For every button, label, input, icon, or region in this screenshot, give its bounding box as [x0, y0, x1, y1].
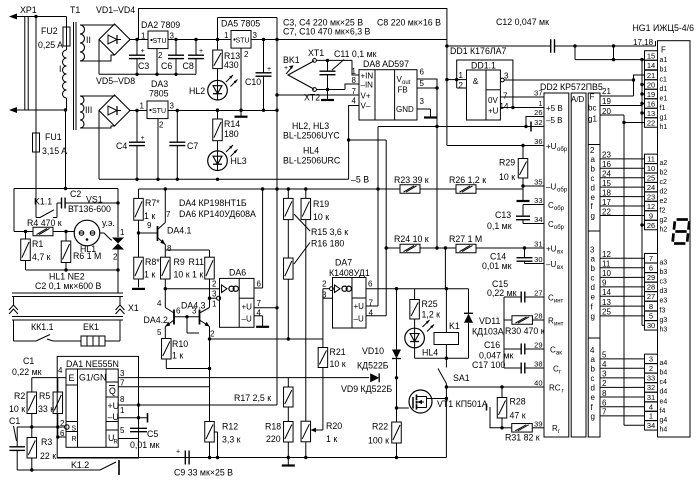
wire h1 feed	[624, 122, 645, 124]
svg-text:II: II	[86, 35, 91, 45]
capacitor C5	[138, 418, 140, 429]
svg-text:R21: R21	[330, 347, 346, 357]
svg-text:17: 17	[602, 198, 611, 207]
svg-text:32: 32	[534, 118, 542, 127]
svg-text:3: 3	[649, 355, 653, 364]
node x277 mid rail	[275, 187, 278, 190]
svg-text:ЕК1: ЕК1	[83, 322, 99, 332]
node R15 top	[287, 187, 290, 190]
svg-text:4,7 к: 4,7 к	[32, 252, 51, 262]
wire R28 stub	[490, 407, 502, 428]
wire VD10 to gate	[396, 373, 398, 408]
resistor R31	[502, 427, 512, 429]
wire from plug bottom to heater box	[65, 110, 67, 189]
svg-text:BK1: BK1	[283, 55, 300, 65]
svg-text:C10: C10	[245, 77, 261, 87]
svg-text:16: 16	[647, 99, 655, 108]
svg-text:C14: C14	[490, 252, 506, 262]
node VT1 drain	[445, 397, 448, 400]
svg-text:h2: h2	[660, 226, 668, 233]
wire g1 feed	[642, 112, 645, 114]
svg-text:1: 1	[141, 32, 146, 41]
svg-text:DA4.1: DA4.1	[167, 226, 192, 236]
switch SA1	[445, 359, 447, 367]
svg-text:–IN: –IN	[361, 81, 374, 90]
node R5 bottom S	[56, 425, 59, 428]
node XP1 top junction	[34, 15, 37, 18]
svg-text:15: 15	[602, 179, 611, 188]
svg-text:25: 25	[602, 308, 611, 317]
svg-text:14: 14	[647, 61, 655, 70]
wire RC oscillator feed	[446, 386, 544, 388]
svg-text:C4: C4	[116, 141, 127, 151]
node x378 rail	[376, 187, 379, 190]
svg-text:c2: c2	[660, 179, 668, 186]
node R6 top	[64, 230, 67, 233]
resistor R16	[284, 258, 294, 279]
node VD9 VT1 gate	[395, 376, 398, 379]
svg-text:30: 30	[647, 321, 655, 330]
svg-text:d: d	[591, 283, 595, 292]
svg-text:7: 7	[257, 299, 262, 308]
resistor R21	[318, 348, 328, 368]
resistor R12	[205, 422, 215, 443]
node R3 bottom	[30, 468, 33, 471]
svg-text:R23 39 к: R23 39 к	[394, 175, 429, 185]
node R9 bottom DA4.2 collector	[164, 287, 167, 290]
svg-text:31: 31	[647, 393, 655, 402]
svg-text:0,22 мк: 0,22 мк	[12, 367, 42, 377]
wire DA8 pin6 out	[417, 79, 437, 88]
svg-text:2: 2	[322, 280, 327, 289]
svg-text:35: 35	[534, 178, 542, 187]
node R6 bottom	[64, 268, 67, 271]
wire DD1 input feed	[447, 79, 457, 81]
svg-text:HL4: HL4	[303, 146, 319, 156]
diode VD9	[370, 373, 379, 382]
svg-text:DA7: DA7	[335, 258, 352, 268]
relay contact K1.1	[36, 217, 40, 219]
resistor R18	[284, 422, 294, 443]
svg-text:bc: bc	[588, 104, 596, 113]
svg-text:180: 180	[224, 129, 239, 139]
node winding feed	[64, 187, 67, 190]
svg-text:4: 4	[58, 366, 63, 375]
node HL2 bottom	[216, 109, 219, 112]
capacitor C8	[195, 40, 197, 56]
wire +Uobr pin36	[447, 145, 544, 147]
display HG1 digit4 pin boxes	[645, 354, 658, 364]
wire DA8 GND pin3	[417, 108, 431, 110]
thermal contact KK1.1	[14, 340, 37, 342]
svg-text:обр: обр	[554, 206, 565, 212]
svg-text:430: 430	[224, 60, 239, 70]
svg-text:A/D: A/D	[571, 95, 585, 104]
svg-text:R16 180: R16 180	[311, 239, 344, 249]
svg-text:FU2: FU2	[41, 26, 58, 36]
svg-text:2: 2	[459, 81, 464, 90]
node R29 bottom	[521, 184, 524, 187]
svg-text:11: 11	[602, 260, 611, 269]
svg-text:S: S	[72, 426, 77, 433]
wire Cobr pin33	[523, 204, 544, 206]
svg-text:e: e	[591, 193, 596, 202]
node DA6 pin6 rail	[261, 187, 264, 190]
svg-text:17,18: 17,18	[633, 38, 654, 47]
svg-text:2: 2	[159, 121, 164, 130]
svg-text:HL1: HL1	[80, 244, 96, 254]
svg-text:a1: a1	[660, 57, 668, 64]
svg-text:+5 В: +5 В	[546, 104, 563, 113]
svg-text:6: 6	[602, 399, 607, 408]
svg-text:3: 3	[170, 102, 175, 111]
LED HL2	[208, 80, 228, 100]
svg-text:C8 220 мк×16 В: C8 220 мк×16 В	[377, 18, 441, 28]
wire +U column x277	[276, 18, 278, 406]
opamp DA6	[220, 278, 255, 327]
svg-text:a4: a4	[660, 360, 668, 367]
wire b1 riser	[634, 75, 645, 96]
svg-text:DD2 КР572ПВ5: DD2 КР572ПВ5	[540, 82, 603, 92]
svg-text:+: +	[199, 48, 203, 55]
svg-text:C11 0,1 мк: C11 0,1 мк	[334, 49, 377, 59]
svg-text:ВТ136-600: ВТ136-600	[68, 204, 111, 214]
svg-text:8: 8	[352, 76, 357, 85]
svg-text:R27 1 М: R27 1 М	[449, 234, 482, 244]
svg-text:b3: b3	[660, 269, 668, 276]
wire X1 pin left	[13, 297, 15, 306]
svg-text:+U: +U	[108, 401, 120, 411]
node backplane tap	[612, 44, 615, 47]
svg-text:DA3: DA3	[151, 79, 168, 89]
node R2 bottom	[30, 425, 33, 428]
resistor R1	[25, 232, 27, 240]
svg-text:4: 4	[352, 97, 357, 106]
svg-text:STU: STU	[152, 108, 166, 115]
node gate R22	[395, 406, 398, 409]
resistor R22	[396, 408, 398, 422]
gate DD1.1	[467, 70, 501, 120]
wire bottom rail	[57, 457, 446, 459]
wire E divider to R2	[31, 378, 33, 392]
svg-text:C6: C6	[161, 61, 172, 71]
svg-text:2: 2	[158, 51, 163, 60]
svg-text:C2 0,1 мк×600 В: C2 0,1 мк×600 В	[35, 281, 102, 291]
resistor R14	[217, 110, 219, 119]
svg-text:HL3: HL3	[231, 156, 247, 166]
node C8 top	[194, 38, 197, 41]
svg-text:+U: +U	[242, 303, 253, 312]
resistor R17	[287, 378, 289, 387]
svg-text:3: 3	[504, 72, 509, 81]
svg-text:R28: R28	[510, 397, 526, 407]
svg-text:инт: инт	[554, 322, 564, 328]
svg-text:DA4 КР198НТ1Б: DA4 КР198НТ1Б	[179, 198, 247, 208]
svg-text:R2: R2	[14, 391, 25, 401]
svg-text:h3: h3	[660, 327, 668, 334]
svg-text:3,3 к: 3,3 к	[222, 435, 241, 445]
svg-text:33: 33	[534, 196, 542, 205]
node DA2 pin2 bottom	[155, 73, 158, 76]
svg-text:e3: e3	[660, 298, 668, 305]
wire DA8 pin5 FB	[417, 87, 437, 89]
svg-text:C8: C8	[183, 61, 194, 71]
svg-text:c: c	[591, 174, 595, 183]
node C3 bottom	[135, 73, 138, 76]
svg-text:HL2: HL2	[189, 86, 205, 96]
node C11 bottom	[326, 88, 329, 91]
wire bridge VD1-VD4 minus	[98, 40, 100, 75]
svg-text:HG1 ИЖЦ5-4/6: HG1 ИЖЦ5-4/6	[632, 23, 694, 33]
svg-text:24: 24	[647, 183, 655, 192]
svg-text:3: 3	[253, 31, 258, 40]
wire R21 wiper arrow to R20	[312, 429, 323, 431]
svg-text:22: 22	[647, 118, 655, 127]
svg-text:1: 1	[120, 228, 125, 237]
wire h3 feed	[642, 324, 645, 326]
svg-text:22: 22	[602, 207, 611, 216]
ADC DD2 pin32 stub	[531, 126, 544, 128]
wire F backplane to pin 15 a1	[575, 59, 645, 61]
wire DD1 pullup route	[457, 60, 513, 108]
svg-text:I: I	[59, 64, 61, 74]
svg-text:e1: e1	[660, 95, 668, 102]
svg-text:3: 3	[590, 246, 595, 255]
svg-text:4: 4	[602, 360, 607, 369]
svg-text:–U: –U	[354, 315, 364, 324]
svg-text:21: 21	[647, 71, 655, 80]
svg-text:+: +	[284, 65, 288, 72]
wire integrator bus	[503, 297, 505, 368]
capacitor C17	[504, 367, 521, 369]
resistor R29	[522, 146, 524, 159]
svg-text:DA6: DA6	[229, 268, 246, 278]
opamp DA7	[333, 278, 367, 329]
resistor R8*	[134, 257, 144, 279]
svg-text:&: &	[473, 76, 479, 86]
node R19 top	[304, 187, 307, 190]
svg-text:–5 В: –5 В	[351, 175, 369, 185]
node pin1 on box edge	[137, 416, 140, 419]
node x277 DA8 V+	[275, 93, 278, 96]
svg-text:5: 5	[157, 328, 162, 337]
svg-text:C3: C3	[138, 61, 149, 71]
node triac top	[116, 201, 119, 204]
ADC DD2 pin37 stub	[500, 96, 544, 98]
resistor R27	[456, 244, 476, 253]
ground below R8	[132, 288, 145, 290]
svg-text:13: 13	[602, 298, 611, 307]
svg-text:10: 10	[647, 164, 655, 173]
svg-text:5: 5	[602, 351, 607, 360]
svg-text:R1: R1	[32, 239, 43, 249]
wire winding II to bridge VD1-VD4	[80, 24, 115, 26]
wire K1 group top	[415, 288, 469, 290]
svg-text:VD9 КД522Б: VD9 КД522Б	[341, 384, 392, 394]
wire DA8 out down to +Uvx	[436, 88, 438, 248]
svg-text:R24 10 к: R24 10 к	[394, 234, 429, 244]
node C3 top	[135, 38, 138, 41]
wire DA4 bases tie	[174, 316, 200, 318]
connector X1 boundary upper	[12, 292, 123, 294]
svg-text:6: 6	[420, 68, 425, 77]
svg-text:R26 1,2 к: R26 1,2 к	[449, 175, 486, 185]
svg-text:R7*: R7*	[145, 198, 160, 208]
capacitor C15	[504, 296, 521, 298]
svg-text:C1: C1	[23, 356, 34, 366]
LED HL4	[405, 328, 425, 348]
svg-text:g3: g3	[660, 317, 668, 324]
node C6 bottom	[174, 73, 177, 76]
node x446 DD1	[445, 78, 448, 81]
wire XT2 to DA8 pin8	[345, 84, 359, 90]
svg-text:C5: C5	[147, 429, 158, 439]
wire DA3 pin2 down	[157, 119, 159, 180]
svg-text:2: 2	[590, 146, 595, 155]
svg-text:d: d	[591, 384, 595, 393]
svg-text:39: 39	[534, 419, 542, 428]
svg-text:b: b	[591, 264, 596, 273]
svg-text:BL-L2506UYC: BL-L2506UYC	[283, 131, 340, 141]
node pin40 junction	[445, 385, 448, 388]
node C6 top	[174, 38, 177, 41]
svg-text:DA1 NE555N: DA1 NE555N	[66, 359, 119, 369]
svg-text:5: 5	[120, 426, 125, 435]
wire Cobr pin34	[523, 223, 544, 225]
svg-text:R17 2,5 к: R17 2,5 к	[234, 393, 271, 403]
svg-text:XT2: XT2	[304, 93, 320, 103]
svg-text:a: a	[591, 355, 596, 364]
svg-text:C16: C16	[484, 340, 500, 350]
svg-text:K1.2: K1.2	[71, 460, 89, 470]
svg-text:XT1: XT1	[308, 48, 324, 58]
svg-text:a2: a2	[660, 160, 668, 167]
capacitor C14	[524, 248, 526, 258]
svg-text:1 к: 1 к	[144, 211, 155, 221]
svg-text:R: R	[72, 436, 77, 443]
svg-text:RC: RC	[549, 384, 561, 393]
svg-text:1: 1	[212, 300, 217, 309]
LED HL3	[208, 151, 228, 171]
bridge rectifier VD1-VD4	[99, 24, 130, 55]
node x445 top	[444, 246, 447, 249]
timer DA1 NE555 box	[66, 369, 118, 447]
node R5 bottom R	[56, 435, 59, 438]
svg-text:E: E	[69, 373, 75, 383]
svg-text:9: 9	[602, 279, 607, 288]
svg-text:1: 1	[538, 99, 542, 108]
transformer T1 winding III	[80, 96, 84, 104]
svg-text:c1: c1	[660, 76, 668, 83]
wire e1 feed	[642, 93, 645, 95]
svg-text:R19: R19	[313, 199, 329, 209]
svg-text:8: 8	[167, 244, 172, 253]
svg-text:T1: T1	[70, 5, 80, 15]
svg-text:R12: R12	[222, 422, 238, 432]
wire DA5 pin2 down	[240, 48, 242, 110]
svg-text:HL2, HL3: HL2, HL3	[292, 121, 329, 131]
svg-text:3: 3	[170, 32, 175, 41]
svg-text:Q: Q	[109, 386, 116, 396]
capacitor C13	[522, 205, 524, 217]
svg-text:g: g	[591, 312, 595, 321]
svg-text:36: 36	[534, 137, 542, 146]
resistor R10	[162, 339, 172, 360]
svg-text:K1: K1	[449, 321, 460, 331]
svg-text:инт: инт	[554, 299, 564, 305]
svg-text:R3: R3	[41, 437, 52, 447]
node x437 y248	[435, 246, 438, 249]
wire top prong to FU2	[36, 16, 67, 18]
node C7 top	[176, 109, 179, 112]
heater EK1	[81, 336, 105, 346]
wire -Uobr pin35	[523, 185, 544, 187]
resistor R13	[217, 40, 219, 51]
resistor R6	[65, 232, 67, 242]
svg-text:10 к 1 к: 10 к 1 к	[174, 270, 204, 280]
svg-text:29: 29	[647, 273, 655, 282]
regulator DA3 7805	[147, 101, 168, 119]
svg-text:КД103А: КД103А	[472, 327, 504, 337]
wire DA8 V+ from common	[277, 94, 359, 96]
node DA5 pin1	[216, 38, 219, 41]
svg-text:1: 1	[140, 102, 145, 111]
svg-text:100 к: 100 к	[368, 436, 389, 446]
capacitor C1	[16, 427, 18, 447]
ADC DD2 output column	[588, 93, 600, 437]
svg-text:g: g	[591, 412, 595, 421]
svg-text:e4: e4	[660, 398, 668, 405]
svg-text:3: 3	[602, 370, 607, 379]
svg-text:6: 6	[649, 264, 653, 273]
svg-text:f1: f1	[660, 105, 666, 112]
svg-text:C12 0,047 мк: C12 0,047 мк	[496, 17, 549, 27]
svg-text:23: 23	[602, 151, 611, 160]
svg-text:R: R	[114, 440, 119, 446]
svg-text:b2: b2	[660, 170, 668, 177]
svg-text:18: 18	[602, 188, 611, 197]
node VD10 top	[395, 287, 398, 290]
timer DA1 outer box	[57, 356, 138, 458]
svg-text:1 к: 1 к	[172, 351, 183, 361]
ADC DD2 A/D column	[571, 93, 586, 437]
svg-text:HL1 NE2: HL1 NE2	[49, 272, 85, 282]
svg-text:VD10: VD10	[362, 346, 384, 356]
svg-text:ак: ак	[556, 351, 562, 357]
wire X1 pin right	[119, 297, 121, 306]
capacitor C12	[447, 45, 551, 47]
amplifier DA8	[359, 70, 417, 120]
wire DD1 input bracket	[456, 80, 458, 88]
neon lamp HL1	[74, 220, 100, 246]
resistor R4	[14, 231, 33, 233]
svg-text:26: 26	[647, 221, 655, 230]
svg-text:R14: R14	[224, 119, 240, 129]
svg-text:–U: –U	[546, 260, 556, 269]
node x437 y126	[435, 125, 438, 128]
transformer T1 winding I	[63, 50, 67, 58]
wire 0V rail top section	[99, 73, 196, 75]
svg-text:SA1: SA1	[453, 373, 470, 383]
capacitor C2	[57, 202, 62, 204]
svg-text:F: F	[590, 93, 595, 102]
svg-text:40: 40	[534, 379, 542, 388]
svg-text:–U: –U	[546, 183, 556, 192]
svg-text:V–: V–	[361, 102, 371, 111]
svg-text:2: 2	[649, 364, 653, 373]
node R18 bottom ground	[287, 456, 290, 459]
node C4 top	[135, 109, 138, 112]
